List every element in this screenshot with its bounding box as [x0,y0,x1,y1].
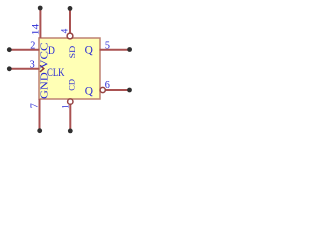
svg-text:SD: SD [67,46,77,59]
svg-text:CD: CD [66,79,76,91]
svg-text:5: 5 [105,40,110,51]
svg-text:GND: GND [39,72,51,99]
svg-text:7: 7 [30,103,41,108]
svg-text:1: 1 [60,104,70,109]
svg-text:Q: Q [85,45,94,57]
svg-text:6: 6 [105,80,110,91]
svg-text:2: 2 [30,41,35,52]
svg-text:VCC: VCC [39,43,51,69]
svg-text:4: 4 [59,28,69,33]
svg-text:3: 3 [30,60,35,71]
svg-text:14: 14 [30,23,40,35]
svg-text:Q: Q [85,86,94,98]
